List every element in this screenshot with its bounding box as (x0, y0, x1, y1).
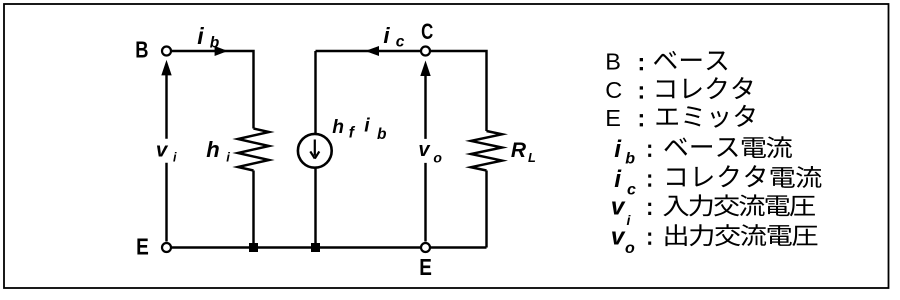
current source circle (h_f i_b) (298, 134, 332, 168)
svg-text:E: E (605, 105, 621, 131)
svg-text:v: v (418, 139, 431, 161)
wire: current source top/bottom stubs (314, 51, 316, 248)
svg-text:i: i (197, 23, 204, 49)
node E right (421, 243, 430, 252)
wire: top rail from current source past node C to right corner (316, 51, 487, 131)
svg-text:c: c (627, 182, 636, 199)
svg-text:C: C (605, 77, 622, 103)
node B (162, 47, 171, 56)
svg-text:B: B (135, 38, 148, 64)
svg-text:i: i (226, 149, 230, 164)
arrowhead of current arrow i_c (365, 46, 379, 56)
voltage arrow v_o shaft (with label gap) (424, 76, 426, 242)
svg-text:b: b (210, 34, 220, 51)
svg-text:i: i (614, 136, 622, 163)
svg-text:h: h (206, 137, 219, 162)
arrowhead of voltage arrow v_o (420, 61, 430, 77)
voltage arrow v_i shaft (with label gap) (165, 75, 167, 242)
bottom rail from node E to R_L corner (171, 246, 487, 248)
svg-text:h: h (332, 117, 344, 138)
svg-text:o: o (625, 240, 635, 257)
svg-text:o: o (433, 149, 442, 165)
junction dot source / rail (311, 243, 320, 252)
svg-text:i: i (173, 151, 177, 165)
svg-text:E: E (419, 255, 432, 280)
svg-text:v: v (611, 194, 626, 221)
svg-text:i: i (383, 23, 390, 48)
wire: R_L bottom to rail corner (485, 171, 487, 248)
node C (421, 47, 430, 56)
wire: h_i bottom to rail (252, 171, 254, 248)
svg-text:v: v (156, 139, 169, 162)
svg-text:c: c (396, 34, 405, 51)
svg-text:v: v (611, 224, 626, 251)
node E left (162, 243, 171, 252)
arrowhead of voltage arrow v_i (161, 60, 171, 76)
current source internal arrow (310, 140, 319, 159)
junction dot h_i / rail (249, 243, 258, 252)
svg-text:R: R (511, 139, 527, 162)
wire: node B to top-left corner down to h_i (171, 51, 254, 129)
svg-text:L: L (528, 150, 536, 165)
svg-text:b: b (377, 126, 387, 143)
svg-text:b: b (625, 151, 635, 168)
resistor h_i (238, 129, 269, 171)
arrowhead of current arrow i_b (215, 46, 228, 56)
resistor R_L (471, 131, 502, 171)
svg-text:C: C (421, 20, 433, 45)
svg-text:i: i (614, 166, 622, 193)
svg-text:B: B (605, 49, 621, 75)
svg-text:E: E (136, 235, 149, 260)
svg-text:i: i (364, 116, 370, 137)
